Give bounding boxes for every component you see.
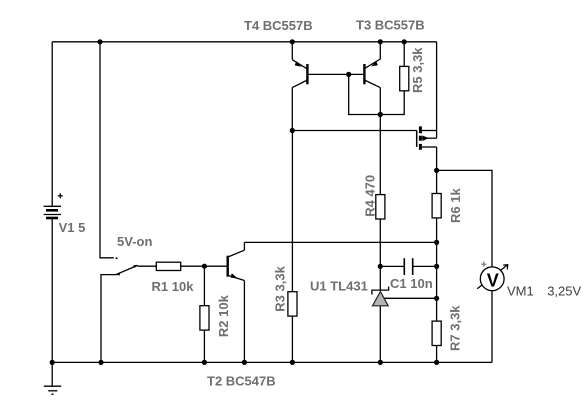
node dot top rail T4 [290,39,295,44]
svg-text:V: V [487,270,499,290]
svg-text:U1 TL431: U1 TL431 [310,278,368,293]
node dot top rail switch [97,39,102,44]
node dot C1 right [434,264,439,269]
node dot rail T2 [242,360,247,365]
resistor R1 [156,262,180,270]
svg-text:T4 BC557B: T4 BC557B [244,18,313,33]
transistor T3 [364,42,380,88]
wire R1 right to T2 base [181,265,227,267]
wire bottom rail [52,361,492,363]
svg-text:C1 10n: C1 10n [390,276,433,291]
resistor R4 [376,195,385,219]
shunt regulator U1 TL431 [372,287,437,363]
node dot rail U1 [378,360,383,365]
svg-text:R3 3,3k: R3 3,3k [272,265,287,311]
wire R7 bottom [436,346,438,363]
wire T2 collector to feedback node [244,241,436,243]
battery V1 [44,206,61,218]
wire switch bottom branch [101,275,116,363]
wire R2 bottom [203,330,205,362]
node dot base tie [346,72,351,77]
svg-text:R7 3,3k: R7 3,3k [448,305,463,351]
transistor T4 [292,42,307,88]
svg-text:R5 3,3k: R5 3,3k [410,47,425,93]
wire output to voltmeter [437,170,492,266]
node dot rail R2 [202,360,207,365]
node dot gate node [290,128,295,133]
switch arm arrow top [133,265,138,268]
svg-text:VM1: VM1 [507,284,534,299]
resistor R5 [400,66,409,90]
capacitor C1 [380,258,436,275]
node dot top rail R5 [402,39,407,44]
wire R2 top [203,266,205,306]
transistor T2 [228,242,245,280]
svg-text:R6 1k: R6 1k [448,188,463,223]
resistor R3 [288,292,297,316]
svg-text:T2 BC547B: T2 BC547B [207,374,276,389]
wire gate line [292,130,416,132]
switch S1 5V-on [116,265,138,274]
voltmeter plus sign [481,262,486,267]
switch arm arrow bottom [116,272,120,275]
resistor R6 [432,194,441,218]
node dot rail switch [98,360,103,365]
wire T4 collector down to gate node [291,88,293,131]
node dot output [434,168,439,173]
svg-text:V1 5: V1 5 [59,220,86,235]
node dot ref [434,296,439,301]
wire mosfet drain up to rail [436,42,438,138]
node dot rail R7 [434,360,439,365]
node dot C1 left [378,264,383,269]
battery plus sign [58,193,63,198]
resistor R2 [200,306,209,330]
node dot top rail T3 [378,39,383,44]
wire top rail [52,41,437,43]
wire mosfet source down [436,147,438,194]
ground [44,362,61,394]
wire T2 emitter down [243,281,245,363]
svg-text:3,25V: 3,25V [547,284,581,299]
wire R5 bottom to diode node [380,91,404,115]
wire R4 bottom to TL431 cathode [379,219,381,291]
wire base tie T4-T3 [309,73,364,75]
wire R3 branch vertical [291,131,293,292]
wire T3 collector down [379,88,381,115]
switch contact tick [116,257,119,259]
resistor R7 [432,321,441,345]
svg-text:R4 470: R4 470 [363,175,378,217]
node dot rail ground [50,360,55,365]
wire R3 bottom [291,316,293,362]
voltmeter VM1 [477,265,508,291]
node dot feedback R6 [434,240,439,245]
node dot R1 R2 base [202,264,207,269]
wire switch top branch [100,42,114,258]
svg-text:R2 10k: R2 10k [216,294,231,337]
svg-text:R1 10k: R1 10k [152,279,195,294]
wire base tie down to diode connection [349,74,381,114]
wire cathode node down through R4 [379,115,381,195]
svg-text:5V-on: 5V-on [117,234,152,249]
wire voltmeter bottom [491,291,493,362]
node dot diode connection [378,112,383,117]
wire R1 left [138,265,157,267]
wire battery left vertical [51,42,53,207]
wire battery bottom vertical [51,218,53,362]
wire R6 bottom [436,218,438,321]
svg-text:T3 BC557B: T3 BC557B [356,17,425,32]
wire R5 top [403,42,405,67]
mosfet M1 [417,126,437,149]
node dot rail R3 [290,360,295,365]
